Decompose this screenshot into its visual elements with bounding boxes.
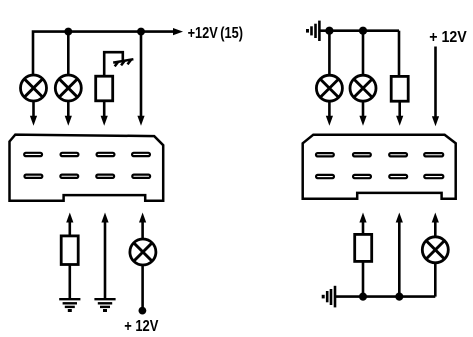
svg-text:+ 12V: + 12V: [124, 318, 159, 335]
svg-text:+12V (15): +12V (15): [188, 25, 243, 42]
svg-text:+ 12V: + 12V: [429, 29, 467, 46]
